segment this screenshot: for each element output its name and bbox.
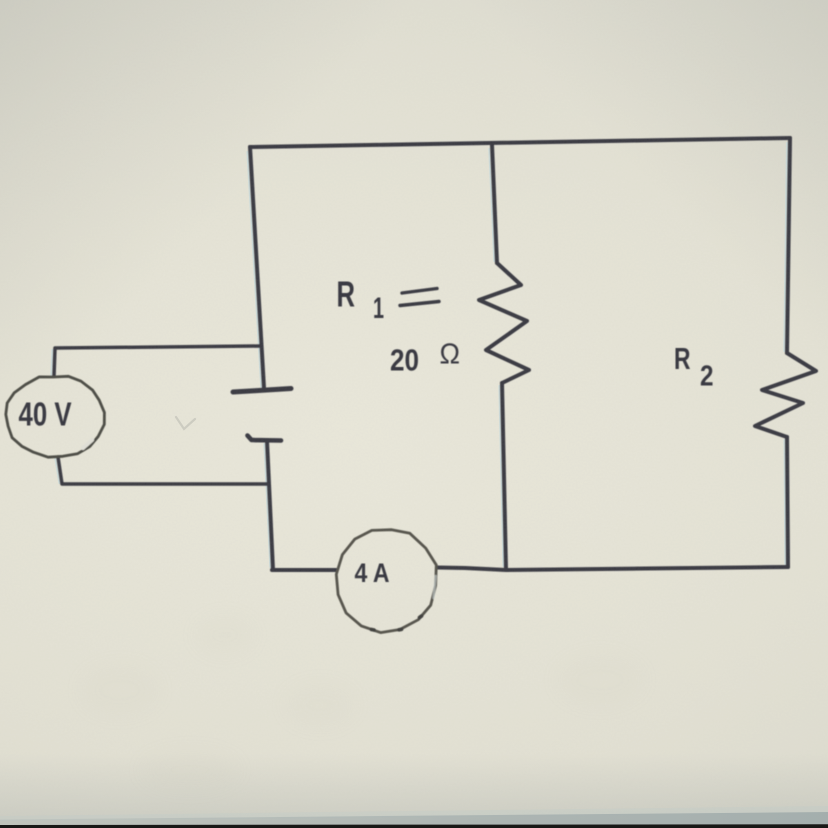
battery V1 bottom plate <box>248 436 282 441</box>
bottom screen bezel band <box>0 812 828 825</box>
gap in 40V circle outline lower-right <box>83 440 92 448</box>
bottom screen bezel light band <box>0 806 828 821</box>
battery V1 top plate <box>233 389 291 393</box>
bottom black bar <box>0 824 828 828</box>
faint pencil check mark <box>176 417 195 429</box>
wire R1 branch bottom vertical <box>502 383 506 570</box>
wire right vertical bottom <box>787 437 788 567</box>
chromatic aberration cyan fringes <box>51 143 787 567</box>
pale gap on right of 4A circle <box>434 576 436 598</box>
current source 4A circle <box>336 530 436 633</box>
wire bottom rail left segment <box>272 568 336 572</box>
wire battery to bottom rail <box>267 441 273 570</box>
joint dots on 4A circle bottom <box>372 616 422 630</box>
wire 40V source bottom lead <box>58 457 268 484</box>
equals sign of R1 value <box>402 289 437 294</box>
voltage source 40V circle <box>6 376 105 457</box>
wire top rail <box>250 138 790 147</box>
wire 40V source top lead <box>54 346 261 376</box>
wire left vertical from top rail to battery <box>250 147 264 388</box>
faint background smudges <box>0 0 1 1</box>
wire bottom rail right segment <box>437 567 788 570</box>
wire right vertical top <box>787 138 790 353</box>
resistor R2 zigzag <box>755 353 816 437</box>
wire R1 branch top vertical <box>492 145 497 263</box>
resistor R1 zigzag <box>479 263 529 383</box>
texture overlay <box>0 0 1 1</box>
